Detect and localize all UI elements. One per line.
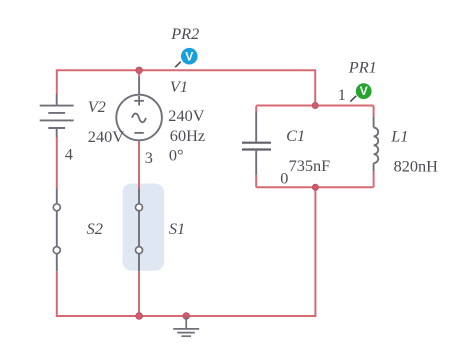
svg-text:60Hz: 60Hz xyxy=(170,126,205,145)
svg-text:240V: 240V xyxy=(168,106,204,125)
svg-text:S2: S2 xyxy=(87,219,103,238)
svg-text:0: 0 xyxy=(280,168,288,187)
svg-text:L1: L1 xyxy=(390,126,408,145)
svg-text:PR1: PR1 xyxy=(348,57,377,76)
svg-text:1: 1 xyxy=(338,85,346,104)
svg-text:PR2: PR2 xyxy=(170,24,199,43)
svg-text:0°: 0° xyxy=(169,146,184,165)
svg-text:3: 3 xyxy=(145,148,153,167)
svg-text:735nF: 735nF xyxy=(289,156,331,175)
svg-text:240V: 240V xyxy=(88,127,124,146)
svg-text:S1: S1 xyxy=(169,219,185,238)
svg-text:V1: V1 xyxy=(170,77,188,96)
svg-text:V: V xyxy=(360,84,368,98)
svg-text:C1: C1 xyxy=(286,126,305,145)
svg-text:V2: V2 xyxy=(88,97,106,116)
svg-text:V: V xyxy=(185,49,193,63)
svg-text:4: 4 xyxy=(65,145,73,164)
svg-text:820nH: 820nH xyxy=(394,157,439,176)
